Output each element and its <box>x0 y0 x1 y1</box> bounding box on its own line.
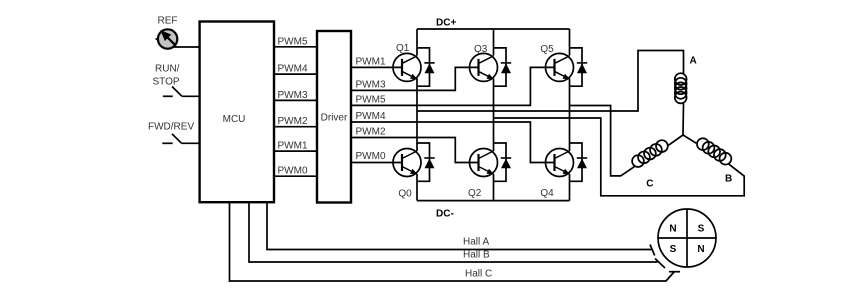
svg-text:PWM5: PWM5 <box>278 36 308 47</box>
svg-text:C: C <box>646 178 653 189</box>
wire PWM5 Driver to Q5 base <box>351 67 555 105</box>
svg-text:REF: REF <box>158 16 178 27</box>
transistor Q1 <box>393 48 435 86</box>
wire FWD/REV to MCU <box>182 142 200 144</box>
svg-text:PWM0: PWM0 <box>278 166 308 177</box>
column 2 rail segments <box>493 29 495 56</box>
svg-text:STOP: STOP <box>153 77 180 88</box>
transistor Q5 <box>546 48 588 86</box>
svg-text:PWM0: PWM0 <box>356 151 386 162</box>
wire PWM4 Driver to Q4 base <box>351 122 555 163</box>
wire winding C to star point <box>668 135 683 145</box>
svg-text:PWM2: PWM2 <box>356 127 386 138</box>
wire PWM1 Driver to Q1 base <box>351 66 402 68</box>
wire PWM0 MCU-Driver <box>274 175 317 177</box>
switch FWD/REV <box>162 134 181 143</box>
DC+ rail <box>417 28 570 30</box>
Driver U2 <box>317 31 351 203</box>
wire phase B from column 2 to winding B <box>494 118 745 196</box>
wire PWM4 MCU-Driver <box>274 73 317 75</box>
svg-text:Driver: Driver <box>321 113 348 124</box>
svg-text:Q0: Q0 <box>398 188 412 199</box>
svg-text:DC-: DC- <box>436 209 454 220</box>
potentiometer REF <box>156 29 178 48</box>
wire winding B to star point <box>683 135 696 143</box>
svg-text:PWM3: PWM3 <box>356 79 386 90</box>
svg-text:Q3: Q3 <box>474 44 488 55</box>
svg-text:B: B <box>725 173 732 184</box>
DC- rail <box>417 200 570 202</box>
hall sensor C tick <box>669 271 680 273</box>
svg-text:Q1: Q1 <box>396 43 410 54</box>
svg-text:S: S <box>698 224 705 235</box>
wire PWM5 MCU-Driver <box>274 46 317 48</box>
svg-text:A: A <box>690 56 697 67</box>
wire PWM2 Driver to Q2 base <box>351 138 479 163</box>
svg-text:N: N <box>697 244 704 255</box>
svg-text:PWM4: PWM4 <box>278 64 308 75</box>
transistor Q4 <box>546 143 588 181</box>
svg-text:DC+: DC+ <box>436 18 456 29</box>
wire phase A from column 1 to winding A <box>417 51 684 112</box>
wire Hall A <box>267 202 652 249</box>
svg-text:PWM5: PWM5 <box>356 94 386 105</box>
winding B coil <box>697 138 731 164</box>
hall sensor B tick <box>655 259 665 269</box>
MCU U1 <box>200 22 274 203</box>
hall sensor A tick <box>650 245 655 256</box>
svg-text:Hall C: Hall C <box>465 269 492 280</box>
column 1 rail segments <box>416 29 418 56</box>
wire PWM1 MCU-Driver <box>274 150 317 152</box>
svg-text:Q4: Q4 <box>540 188 554 199</box>
svg-text:RUN/: RUN/ <box>155 64 180 75</box>
svg-text:PWM2: PWM2 <box>278 116 308 127</box>
wire RUN/STOP to MCU <box>182 95 200 97</box>
wire PWM3 Driver to Q3 base <box>351 67 479 90</box>
wire winding A to star point <box>682 103 685 135</box>
transistor Q3 <box>470 48 512 86</box>
wire phase C from column 3 to winding C <box>570 106 635 176</box>
wire Hall C <box>230 202 675 281</box>
svg-text:Q5: Q5 <box>540 44 554 55</box>
svg-text:S: S <box>670 244 677 255</box>
transistor Q0 <box>393 143 435 181</box>
svg-text:PWM1: PWM1 <box>278 141 308 152</box>
column 3 rail segments <box>569 29 571 56</box>
svg-text:PWM1: PWM1 <box>356 56 386 67</box>
svg-text:FWD/REV: FWD/REV <box>148 122 194 133</box>
svg-text:PWM3: PWM3 <box>278 90 308 101</box>
wire PWM0 Driver to Q0 base <box>351 162 402 164</box>
hall sensor disc <box>658 209 716 267</box>
switch RUN/STOP <box>163 87 182 97</box>
transistor Q2 <box>470 143 512 181</box>
svg-text:MCU: MCU <box>223 114 246 125</box>
wire PWM2 MCU-Driver <box>274 126 317 128</box>
svg-text:N: N <box>669 224 676 235</box>
svg-text:Q2: Q2 <box>468 188 482 199</box>
svg-text:PWM4: PWM4 <box>356 111 386 122</box>
wire Hall B <box>249 202 658 262</box>
svg-text:Hall B: Hall B <box>463 250 490 261</box>
winding C coil <box>632 140 668 167</box>
wire REF to MCU <box>173 46 200 48</box>
wire PWM3 MCU-Driver <box>274 99 317 101</box>
winding A coil <box>675 73 687 103</box>
svg-text:Hall A: Hall A <box>463 236 489 247</box>
